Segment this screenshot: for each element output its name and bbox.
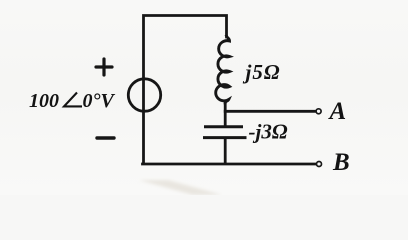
wire capacitor to bottom (224, 139, 227, 163)
wire inductor to capacitor (224, 101, 227, 125)
angle symbol (64, 93, 82, 107)
wire left loop: top wire, left vertical (144, 16, 227, 164)
capacitor bottom plate (205, 136, 246, 139)
wire branch to node A (225, 110, 314, 113)
inductor L j5ohm (216, 36, 230, 103)
svg-text:A: A (328, 98, 347, 125)
wire bottom (143, 163, 316, 166)
plus sign (96, 59, 112, 75)
svg-text:100: 100 (29, 90, 59, 112)
minus sign (97, 136, 114, 139)
terminal A (316, 109, 321, 114)
svg-text:B: B (332, 149, 350, 176)
svg-text:0°V: 0°V (83, 90, 116, 112)
capacitor top plate (206, 125, 242, 128)
terminal B (317, 162, 322, 167)
svg-text:j5Ω: j5Ω (243, 60, 281, 84)
voltage source circle (128, 79, 160, 111)
svg-text:-j3Ω: -j3Ω (249, 120, 288, 144)
